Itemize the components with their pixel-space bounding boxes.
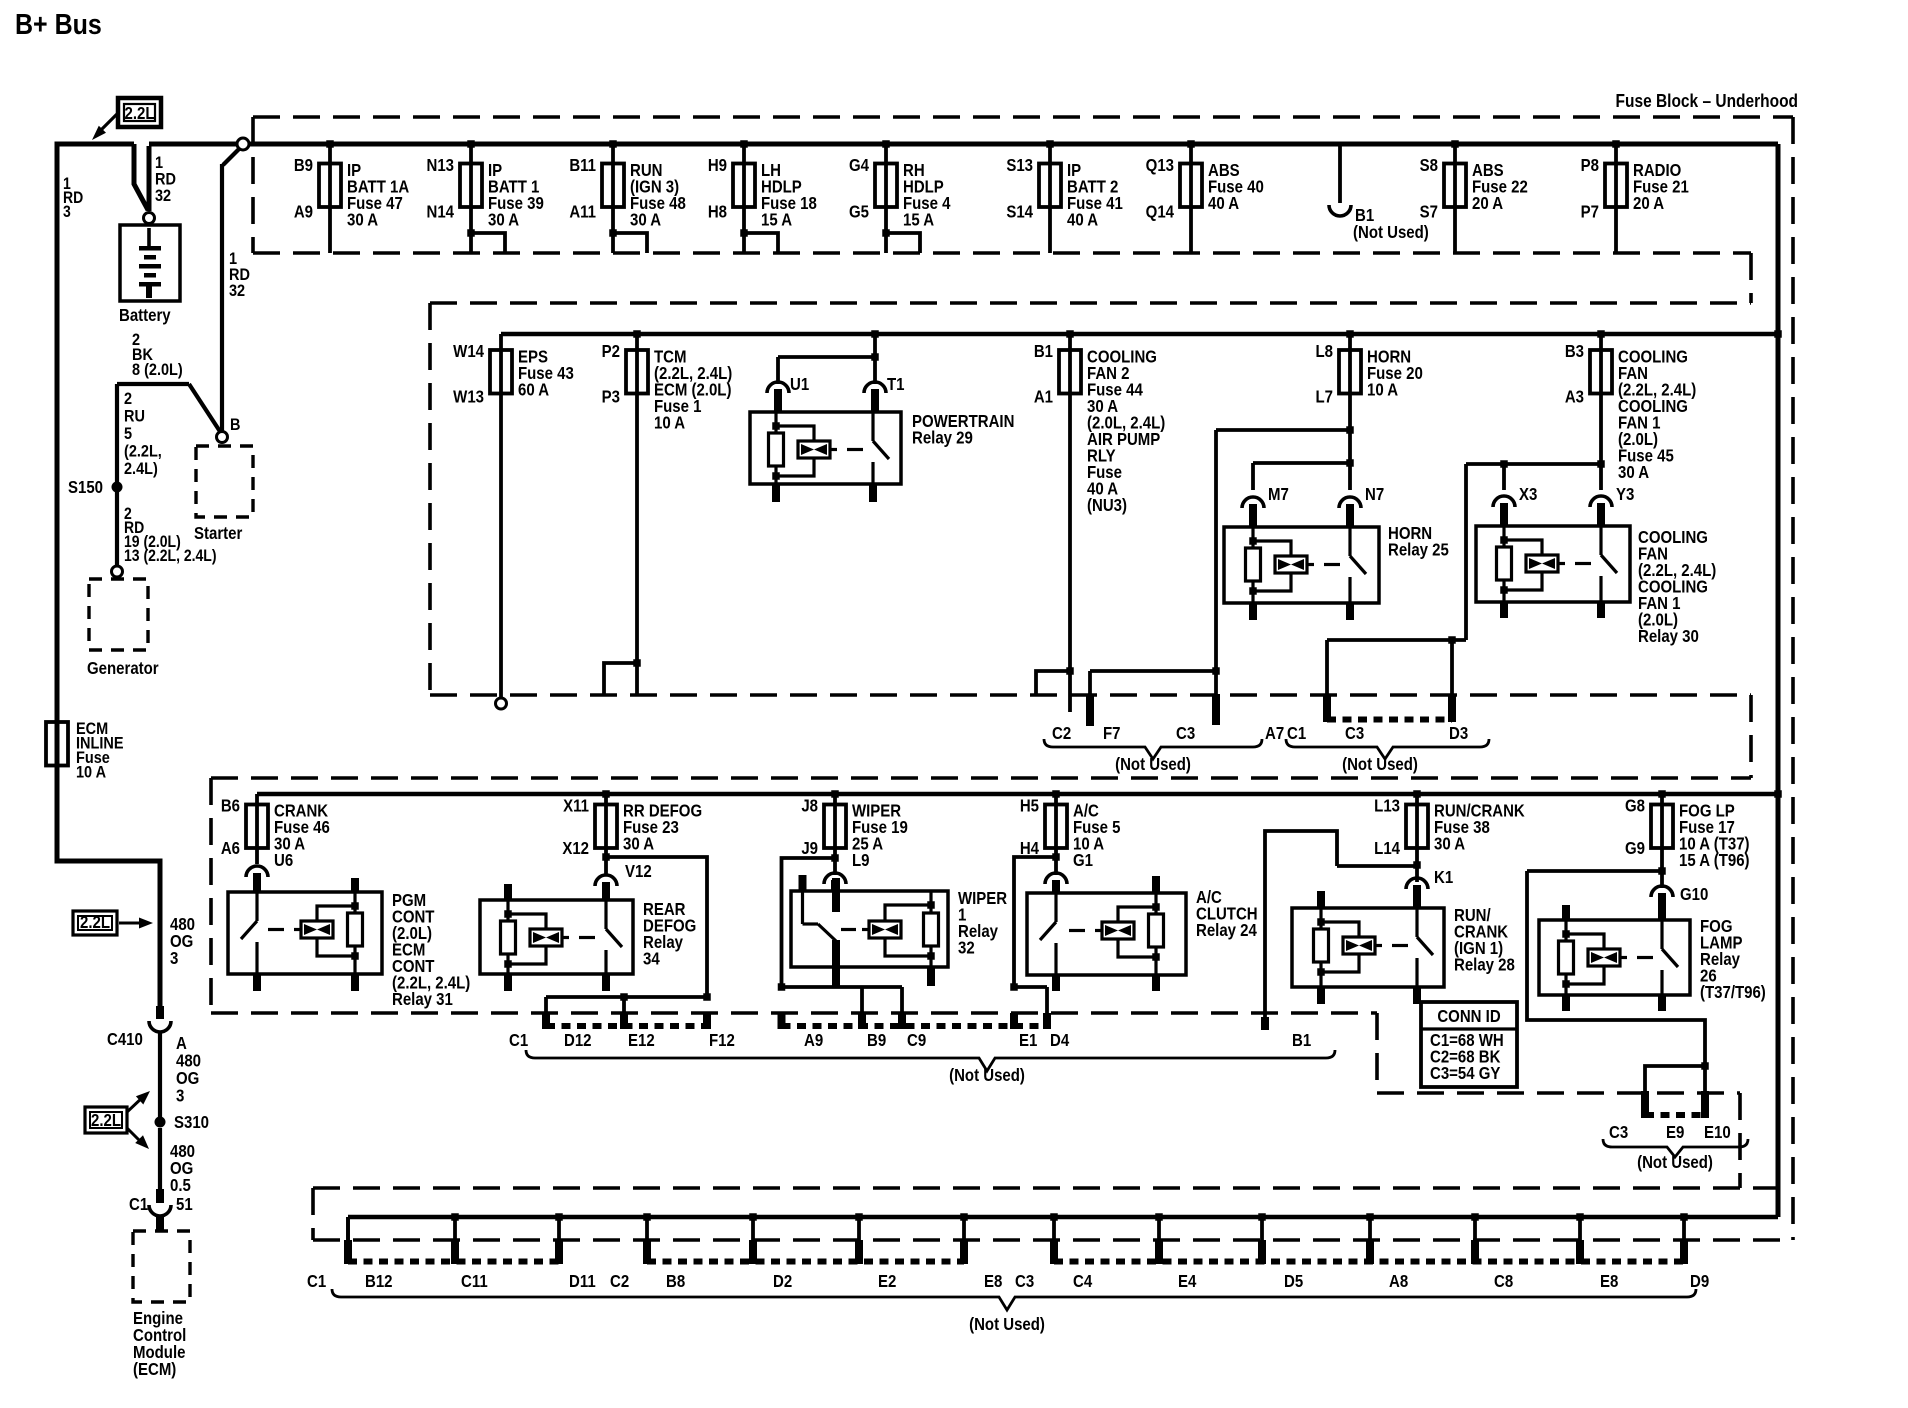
svg-text:N14: N14 (426, 202, 454, 221)
wire battery positive riser left (134, 144, 148, 210)
fuse F39 IP BATT 1 30A pins N13 N14 (426, 140, 543, 253)
relay K24 AC CLUTCH (1027, 876, 1258, 991)
svg-text:C1: C1 (1287, 724, 1306, 743)
svg-text:Fuse Block – Underhood: Fuse Block – Underhood (1616, 91, 1798, 111)
wire horn relay branch (1253, 459, 1354, 490)
svg-text:B12: B12 (365, 1272, 393, 1291)
svg-text:E4: E4 (1178, 1272, 1196, 1291)
svg-text:J8: J8 (801, 796, 818, 815)
svg-text:0.5: 0.5 (170, 1176, 191, 1195)
connector Y3 (1590, 485, 1634, 526)
svg-text:D9: D9 (1690, 1272, 1709, 1291)
svg-text:B3: B3 (1565, 342, 1584, 361)
svg-text:L9: L9 (852, 851, 870, 870)
svg-text:Relay 30: Relay 30 (1638, 627, 1699, 646)
pin labels A9 B9 C9 (804, 1031, 926, 1050)
svg-text:C1: C1 (129, 1195, 148, 1214)
svg-text:K1: K1 (1434, 868, 1453, 887)
svg-text:(Not Used): (Not Used) (949, 1066, 1025, 1085)
fuse F45 COOLING FAN 30A pins B3 A3 (1565, 330, 1696, 490)
svg-text:5: 5 (124, 425, 132, 443)
svg-text:3: 3 (170, 949, 178, 968)
fuse F22 ABS 20A pins S8 S7 (1420, 140, 1528, 253)
fuse F19 WIPER 25A pins J8 J9 (801, 790, 908, 875)
connector C1 ECM pin 51 (129, 1189, 193, 1232)
svg-text:C2: C2 (610, 1272, 629, 1291)
fuse F46 CRANK 30A pins B6 A6 (221, 794, 330, 870)
connector U1 (767, 375, 809, 412)
svg-text:L8: L8 (1315, 342, 1333, 361)
svg-text:CONN ID: CONN ID (1437, 1007, 1500, 1026)
connector V12 (595, 862, 652, 900)
svg-text:D11: D11 (569, 1272, 596, 1291)
svg-text:N7: N7 (1365, 485, 1384, 504)
svg-text:B9: B9 (867, 1031, 886, 1050)
svg-text:60 A: 60 A (518, 380, 549, 399)
pin labels C3 E9 E10 (1609, 1123, 1731, 1142)
svg-text:A: A (176, 1034, 187, 1053)
wire row2 bus (501, 330, 1782, 338)
svg-text:D4: D4 (1050, 1031, 1069, 1050)
svg-text:D3: D3 (1449, 724, 1468, 743)
svg-text:(Not Used): (Not Used) (1637, 1153, 1713, 1172)
svg-text:C3: C3 (1176, 724, 1195, 743)
svg-text:B6: B6 (221, 796, 240, 815)
svg-text:J9: J9 (801, 839, 818, 858)
wire label 2 BK 8 (2.0L) (132, 331, 183, 379)
connector G10 (1651, 885, 1708, 920)
junction wiper output (782, 854, 839, 987)
svg-text:F7: F7 (1103, 724, 1121, 743)
fuse F17 FOG LP pins G8 G9 (1625, 790, 1750, 888)
relay K25 HORN (1224, 524, 1449, 620)
pin labels E1 D4 (1019, 1031, 1069, 1050)
wire cooling fan output loop (1327, 464, 1466, 644)
wire 1 RD 32 to starter (222, 148, 240, 431)
fuse block label (1616, 91, 1798, 111)
fuse F47 IP BATT 1A 30A pins B9 A9 (294, 140, 410, 253)
wire rr defog to D12 E12 F12 pins (542, 857, 711, 1029)
svg-text:30 A: 30 A (1618, 463, 1649, 482)
svg-text:30 A: 30 A (630, 210, 661, 229)
battery B1 (120, 225, 180, 301)
connector X3 (1493, 485, 1537, 526)
svg-text:U1: U1 (790, 375, 809, 394)
svg-text:S13: S13 (1006, 156, 1033, 175)
fuse F5 AC 10A pins H5 H4 (1020, 790, 1121, 875)
svg-text:S8: S8 (1420, 156, 1438, 175)
svg-text:P7: P7 (1581, 202, 1599, 221)
label Generator (87, 659, 159, 678)
label 2.2L tag middle (73, 911, 153, 935)
fuse F38 RUN CRANK 30A pins L13 L14 (1374, 790, 1525, 882)
svg-text:V12: V12 (625, 862, 652, 881)
svg-text:L7: L7 (1315, 387, 1333, 406)
svg-text:W14: W14 (453, 342, 484, 361)
svg-text:E8: E8 (1600, 1272, 1618, 1291)
dotted not-used link D12-F12 (546, 1023, 707, 1029)
connector G1 (1045, 873, 1067, 893)
wire right B+ feed (1776, 144, 1781, 1217)
svg-text:Relay 25: Relay 25 (1388, 540, 1449, 559)
svg-text:30 A: 30 A (1434, 834, 1465, 853)
svg-text:B11: B11 (569, 156, 596, 175)
node battery terminal (144, 213, 155, 224)
svg-text:15 A: 15 A (903, 210, 934, 229)
svg-text:G10: G10 (1680, 885, 1708, 904)
svg-text:RU: RU (124, 408, 145, 426)
svg-text:C3: C3 (1609, 1123, 1628, 1142)
pin C1 stub right group (1323, 640, 1331, 722)
svg-text:L13: L13 (1374, 796, 1400, 815)
wire left branch from battery (57, 144, 160, 1006)
svg-text:P3: P3 (602, 387, 620, 406)
svg-text:C2: C2 (1052, 724, 1071, 743)
fuse F44 COOLING FAN 2 30A pins B1 A1 (1034, 330, 1165, 712)
svg-text:G8: G8 (1625, 796, 1645, 815)
connector N7 (1339, 485, 1384, 527)
svg-text:(NU3): (NU3) (1087, 496, 1127, 515)
label 2.2L tag top (92, 98, 161, 140)
svg-text:30 A: 30 A (347, 210, 378, 229)
svg-text:C3=54 GY: C3=54 GY (1430, 1064, 1501, 1083)
connector U6 (246, 866, 268, 892)
svg-text:20 A: 20 A (1633, 194, 1664, 213)
dotted not-used link C1-D3 (1327, 717, 1452, 723)
svg-text:(Not Used): (Not Used) (969, 1315, 1045, 1334)
svg-text:10 A: 10 A (76, 764, 106, 782)
svg-text:Q14: Q14 (1146, 202, 1174, 221)
svg-text:H9: H9 (708, 156, 727, 175)
fuse F18 LH HDLP 15A pins H9 H8 (708, 140, 817, 253)
junction run crank output (1413, 861, 1421, 869)
fuse F43 EPS 60A pins W14 W13 (453, 334, 574, 697)
pin labels C1 D12 E12 F12 (509, 1031, 735, 1050)
svg-text:40 A: 40 A (1208, 194, 1239, 213)
engine control module dashed box (133, 1231, 190, 1302)
svg-text:D12: D12 (564, 1031, 592, 1050)
svg-text:S7: S7 (1420, 202, 1438, 221)
wire label 1 RD 32 left (155, 154, 176, 205)
relay K30 COOLING FAN (1476, 526, 1716, 646)
label Engine Control Module ECM (133, 1309, 186, 1379)
node generator terminal (112, 566, 123, 577)
net label B+ Bus (15, 8, 102, 40)
svg-text:E9: E9 (1666, 1123, 1684, 1142)
bottom strip connector pins (344, 1213, 1688, 1264)
junction rr defog output (602, 853, 610, 861)
svg-text:51: 51 (176, 1195, 193, 1214)
wire label 480 OG 3 upper (170, 915, 195, 968)
svg-text:32: 32 (958, 938, 975, 957)
wire label 2 RU 5 (2.2L, 2.4L) (124, 390, 162, 478)
svg-text:13 (2.2L, 2.4L): 13 (2.2L, 2.4L) (124, 547, 216, 565)
bracket not used C1-B1 row3 (526, 1050, 1335, 1085)
svg-text:A1: A1 (1034, 387, 1053, 406)
svg-text:A3: A3 (1565, 387, 1584, 406)
svg-text:Y3: Y3 (1616, 485, 1634, 504)
fuse ECM INLINE 10 A (46, 720, 123, 782)
svg-text:(T37/T96): (T37/T96) (1700, 983, 1766, 1002)
svg-text:M7: M7 (1268, 485, 1289, 504)
svg-text:2.2L: 2.2L (124, 104, 154, 123)
pin D3 stub (1448, 640, 1456, 722)
svg-text:C3: C3 (1345, 724, 1364, 743)
svg-text:D5: D5 (1284, 1272, 1303, 1291)
svg-text:A11: A11 (569, 202, 596, 221)
svg-text:X11: X11 (563, 796, 589, 815)
wire powertrain relay feed (778, 330, 879, 384)
fuse F21 RADIO 20A pins P8 P7 (1581, 140, 1689, 253)
svg-text:S150: S150 (68, 478, 103, 497)
wire label 480 OG 0.5 (170, 1142, 195, 1195)
junction ac output (1014, 853, 1060, 987)
fuse F1 TCM ECM 10A pins P2 P3 (602, 330, 733, 695)
splice S310 (155, 1113, 210, 1132)
wire battery positive riser right (147, 146, 152, 211)
junction fog lamp output (1658, 867, 1666, 875)
svg-text:P2: P2 (602, 342, 620, 361)
svg-text:E1: E1 (1019, 1031, 1037, 1050)
wire C410 to S310 (158, 1032, 162, 1117)
svg-text:A8: A8 (1389, 1272, 1408, 1291)
svg-text:A9: A9 (804, 1031, 823, 1050)
fuse F41 IP BATT 2 40A pins S13 S14 (1006, 140, 1122, 253)
bracket not used C1-D3 (1286, 739, 1489, 774)
wire label 1 RD 32 right (229, 250, 250, 300)
svg-text:Battery: Battery (119, 306, 171, 325)
connector L9 (824, 873, 846, 891)
bracket not used E9-E10 (1603, 1139, 1748, 1172)
svg-text:2.4L): 2.4L) (124, 460, 158, 478)
svg-text:A6: A6 (221, 839, 240, 858)
svg-text:H8: H8 (708, 202, 727, 221)
connector K1 (1406, 868, 1453, 908)
wire top B+ bus (149, 142, 1778, 147)
svg-text:B1: B1 (1292, 1031, 1311, 1050)
fuse F4 RH HDLP 15A pins G4 G5 (849, 140, 950, 253)
wire label 2 RD 19 13 (124, 505, 216, 565)
svg-text:E10: E10 (1704, 1123, 1731, 1142)
svg-text:2.2L: 2.2L (80, 913, 110, 932)
fuse F20 HORN 10A pins L8 L7 (1315, 330, 1422, 490)
wire row3 bus (257, 790, 1782, 798)
svg-text:A7: A7 (1265, 724, 1284, 743)
bracket not used bottom strip (332, 1289, 1696, 1334)
wire label 1 RD 3 (63, 175, 83, 221)
svg-text:F12: F12 (709, 1031, 735, 1050)
svg-text:Starter: Starter (194, 524, 243, 543)
svg-text:32: 32 (229, 282, 245, 300)
svg-text:OG: OG (176, 1069, 199, 1088)
fuse F40 ABS 40A pins Q13 Q14 (1146, 140, 1264, 253)
svg-text:N13: N13 (426, 156, 454, 175)
pin C3 stub with riser (1212, 430, 1220, 725)
svg-text:P8: P8 (1581, 156, 1599, 175)
svg-text:2: 2 (124, 390, 132, 408)
svg-text:E8: E8 (984, 1272, 1002, 1291)
svg-text:480: 480 (176, 1051, 201, 1070)
wire wiper pins A9 B9 C9 (778, 983, 907, 1029)
svg-text:E2: E2 (878, 1272, 896, 1291)
fuse block underhood dashed boundary (211, 117, 1793, 1240)
svg-text:(Not Used): (Not Used) (1115, 755, 1191, 774)
svg-text:30 A: 30 A (488, 210, 519, 229)
relay K31 PGM CONT ECM CONT (228, 878, 470, 1009)
relay K28 RUN CRANK IGN1 (1292, 891, 1515, 1004)
wire label A 480 OG 3 (176, 1034, 201, 1106)
svg-text:Generator: Generator (87, 659, 159, 678)
svg-text:L14: L14 (1374, 839, 1400, 858)
svg-text:C410: C410 (107, 1030, 143, 1049)
wire run crank to B1 pin (1261, 831, 1417, 1030)
node EPS output connector (496, 698, 507, 709)
label 2.2L tag bottom (85, 1091, 150, 1149)
svg-text:D2: D2 (773, 1272, 792, 1291)
svg-text:C3: C3 (1015, 1272, 1034, 1291)
wire ac pins E1 D4 (1010, 983, 1051, 1029)
svg-text:W13: W13 (453, 387, 484, 406)
fuse F48 RUN IGN3 30A pins B11 A11 (569, 140, 685, 253)
svg-text:15 A (T96): 15 A (T96) (1679, 851, 1750, 870)
svg-text:2.2L: 2.2L (91, 1111, 121, 1130)
svg-text:15 A: 15 A (761, 210, 792, 229)
junction horn feed (1216, 426, 1354, 434)
svg-text:B8: B8 (666, 1272, 685, 1291)
svg-text:3: 3 (63, 203, 71, 221)
wire F7 to C3 link (1090, 667, 1220, 675)
conn id legend box (1421, 1002, 1517, 1087)
svg-text:32: 32 (155, 187, 171, 205)
connector M7 (1242, 485, 1289, 527)
wire S310 to ECM (158, 1128, 162, 1189)
svg-text:(Not Used): (Not Used) (1342, 755, 1418, 774)
connector T1 (864, 375, 905, 412)
generator dashed box (89, 579, 148, 650)
relay K26 FOG LAMP (1539, 905, 1766, 1011)
svg-text:30 A: 30 A (623, 834, 654, 853)
connector C410 (107, 1006, 171, 1049)
svg-text:G9: G9 (1625, 839, 1645, 858)
relay K29 POWERTRAIN (750, 412, 1014, 502)
node bus connector (237, 138, 249, 150)
pin labels C2 F7 C3 A7 (1052, 724, 1284, 743)
svg-text:Relay 28: Relay 28 (1454, 955, 1515, 974)
fuse F23 RR DEFOG 30A pins X11 X12 (562, 790, 702, 875)
svg-text:10 A: 10 A (654, 413, 685, 432)
svg-text:Q13: Q13 (1146, 156, 1174, 175)
svg-text:34: 34 (643, 949, 660, 968)
bottom strip pin labels (307, 1272, 1709, 1291)
wire bottom strip bus (348, 1215, 1778, 1220)
svg-text:10 A: 10 A (1367, 380, 1398, 399)
svg-text:B1: B1 (1034, 342, 1053, 361)
svg-text:8 (2.0L): 8 (2.0L) (132, 361, 183, 379)
svg-text:3: 3 (176, 1086, 184, 1105)
svg-text:G4: G4 (849, 156, 869, 175)
label Starter (194, 524, 243, 543)
label Battery (119, 306, 171, 325)
pin labels C1 C3 D3 (1287, 724, 1468, 743)
pin label B1 row3 (1292, 1031, 1311, 1050)
splice S150 (68, 478, 123, 497)
pin F7 stub (1086, 671, 1094, 726)
svg-text:G5: G5 (849, 202, 869, 221)
svg-text:B: B (230, 416, 240, 434)
wire battery to S150 and starter (117, 384, 221, 566)
dotted not-used link E9-E10 (1645, 1112, 1705, 1118)
svg-text:(Not Used): (Not Used) (1353, 223, 1429, 242)
svg-text:B+ Bus: B+ Bus (15, 8, 102, 40)
svg-text:S310: S310 (174, 1113, 209, 1132)
starter dashed box (196, 446, 253, 517)
svg-text:40 A: 40 A (1067, 210, 1098, 229)
svg-text:X3: X3 (1519, 485, 1537, 504)
svg-text:C9: C9 (907, 1031, 926, 1050)
junction A1 wire (1036, 667, 1074, 694)
wire fog lamp bypass to E9 E10 (1527, 871, 1709, 1118)
svg-text:C11: C11 (461, 1272, 488, 1291)
svg-text:U6: U6 (274, 851, 293, 870)
svg-text:C1: C1 (307, 1272, 326, 1291)
svg-text:C8: C8 (1494, 1272, 1513, 1291)
dotted not-used links bottom strip (348, 1259, 1684, 1265)
relay K32 WIPER 1 (791, 875, 1007, 986)
bracket not used C2-A7 (1044, 739, 1262, 774)
svg-text:G1: G1 (1073, 851, 1093, 870)
svg-text:A9: A9 (294, 202, 313, 221)
svg-text:T1: T1 (887, 375, 905, 394)
pin B1 not used (1329, 144, 1429, 242)
svg-text:X12: X12 (562, 839, 589, 858)
svg-text:20 A: 20 A (1472, 194, 1503, 213)
relay K34 REAR DEFOG (480, 884, 696, 991)
svg-text:(ECM): (ECM) (133, 1360, 176, 1379)
svg-text:(2.2L,: (2.2L, (124, 443, 162, 461)
dotted not-used link A9-D4 (782, 1023, 1048, 1029)
svg-text:B9: B9 (294, 156, 313, 175)
svg-text:S14: S14 (1006, 202, 1033, 221)
node starter terminal B (217, 416, 241, 442)
svg-text:Relay 29: Relay 29 (912, 428, 973, 447)
svg-text:H5: H5 (1020, 796, 1039, 815)
svg-text:C1: C1 (509, 1031, 528, 1050)
svg-text:Relay 31: Relay 31 (392, 990, 453, 1009)
svg-text:E12: E12 (628, 1031, 655, 1050)
svg-text:C4: C4 (1073, 1272, 1092, 1291)
wire cooling fan relay feed (1466, 460, 1605, 490)
svg-text:Relay 24: Relay 24 (1196, 921, 1257, 940)
